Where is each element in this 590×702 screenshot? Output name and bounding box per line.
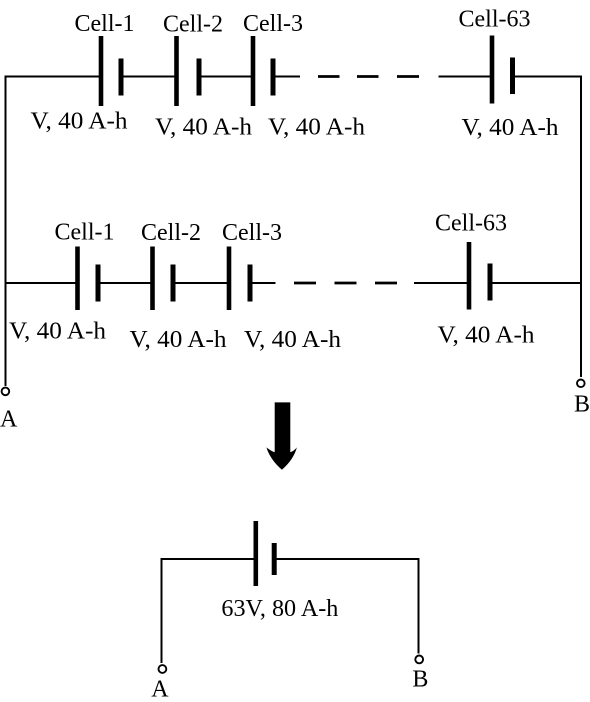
wire row2 B3b to dashes — [250, 282, 276, 284]
wire row2 dashes to B63b — [414, 282, 469, 284]
battery cell B2 long plate — [174, 36, 179, 106]
svg-text:A: A — [0, 407, 18, 433]
wire row1 right segment — [513, 76, 583, 78]
battery cell B2 short plate — [197, 59, 202, 96]
wire bottom right drop — [418, 558, 420, 654]
wire right vertical (node B riser) — [580, 76, 582, 378]
svg-text:Cell-1: Cell-1 — [75, 11, 135, 37]
svg-text:V, 40 A-h: V, 40 A-h — [268, 114, 365, 140]
wire row2 B1b-B2b — [98, 282, 153, 284]
svg-text:Cell-63: Cell-63 — [459, 7, 531, 33]
wire row2 B2b-B3b — [173, 282, 229, 284]
wire row1 left segment — [5, 76, 102, 78]
battery cell B1b long plate — [75, 247, 80, 311]
wire left vertical (node A riser) — [5, 76, 7, 387]
svg-text:V, 40 A-h: V, 40 A-h — [31, 109, 128, 135]
svg-text:V, 40 A-h: V, 40 A-h — [462, 115, 559, 141]
wire row2 left segment — [5, 282, 78, 284]
wire row1 B2-B3 — [199, 76, 253, 78]
equivalent battery short plate — [272, 543, 277, 575]
battery cell B1b short plate — [96, 265, 101, 302]
svg-text:Cell-1: Cell-1 — [55, 220, 115, 246]
battery cell B63b long plate — [467, 242, 472, 310]
equivalent battery long plate — [254, 521, 259, 586]
terminal B (top circuit) — [577, 380, 585, 388]
wire row1 B3 to dashes — [273, 76, 300, 78]
battery cell B3b long plate — [227, 247, 232, 311]
svg-text:A: A — [151, 676, 169, 702]
svg-text:V, 40 A-h: V, 40 A-h — [244, 327, 341, 353]
wire bottom left segment — [162, 558, 256, 560]
wire row1 B1-B2 — [121, 76, 177, 78]
battery cell B63b short plate — [488, 264, 493, 301]
wire row1 dashes to B63 — [439, 76, 493, 78]
wire bottom left drop — [161, 558, 163, 663]
svg-text:B: B — [574, 392, 590, 418]
svg-text:V, 40 A-h: V, 40 A-h — [9, 319, 106, 345]
wire row1 dashed continuation — [318, 75, 419, 78]
equivalence arrow (down) — [266, 402, 297, 469]
battery cell B1 long plate — [99, 36, 104, 106]
battery cell B2b long plate — [150, 247, 155, 311]
svg-text:Cell-3: Cell-3 — [222, 220, 282, 246]
svg-text:V, 40 A-h: V, 40 A-h — [438, 323, 535, 349]
svg-text:Cell-3: Cell-3 — [243, 11, 303, 37]
battery cell B1 short plate — [119, 59, 124, 96]
terminal B (equivalent circuit) — [415, 656, 423, 664]
svg-text:Cell-63: Cell-63 — [435, 211, 507, 237]
battery cell B63 short plate — [510, 58, 515, 95]
terminal A (equivalent circuit) — [159, 665, 167, 673]
svg-text:V, 40 A-h: V, 40 A-h — [130, 327, 227, 353]
wire bottom right segment — [274, 558, 418, 560]
battery cell B63 long plate — [490, 36, 495, 104]
svg-text:Cell-2: Cell-2 — [163, 12, 223, 38]
svg-text:63V, 80 A-h: 63V, 80 A-h — [221, 596, 338, 622]
battery cell B3b short plate — [248, 265, 253, 302]
svg-text:B: B — [412, 667, 428, 693]
svg-text:Cell-2: Cell-2 — [141, 220, 201, 246]
battery cell B3 short plate — [271, 59, 276, 96]
svg-text:V, 40 A-h: V, 40 A-h — [155, 114, 252, 140]
battery cell B2b short plate — [171, 265, 176, 302]
wire row2 dashed continuation — [294, 282, 397, 285]
wire row2 right segment — [490, 282, 582, 284]
terminal A (top circuit) — [2, 388, 10, 396]
battery cell B3 long plate — [251, 36, 256, 106]
